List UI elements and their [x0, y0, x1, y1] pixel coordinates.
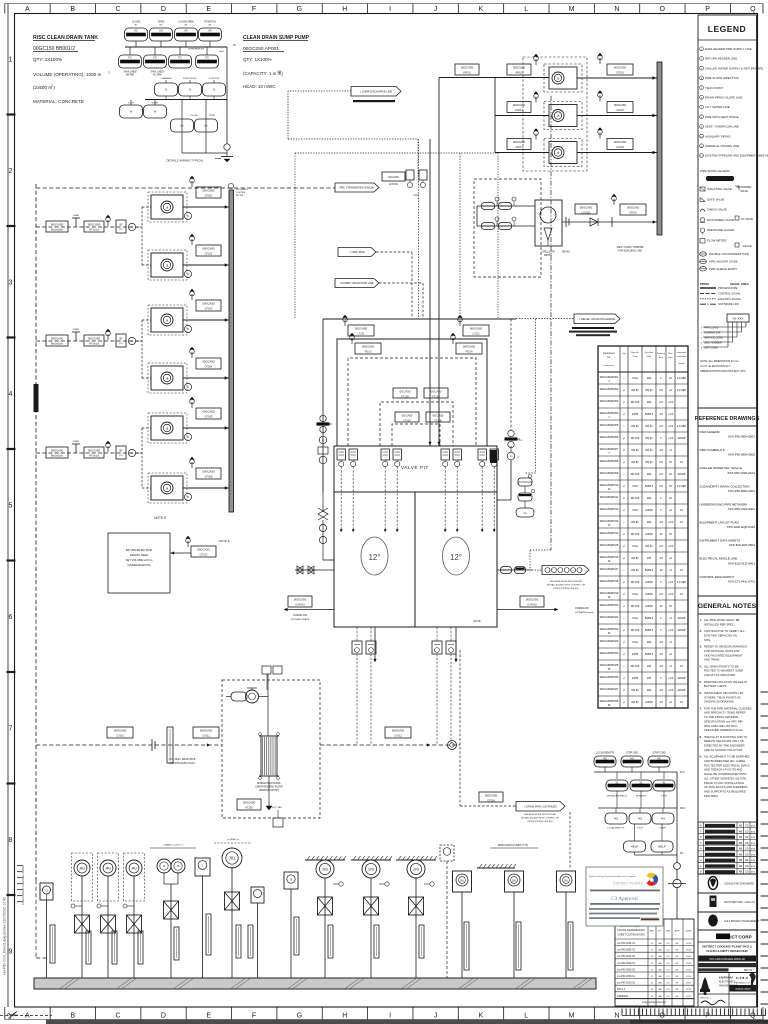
consultant logo rows [698, 874, 760, 927]
valve pit instrument pair 4 [478, 449, 499, 467]
svg-text:ALKEP: ALKEP [677, 437, 685, 440]
svg-text:XXX-PID-GEN-0001: XXX-PID-GEN-0001 [728, 435, 756, 439]
svg-text:00GCA50: 00GCA50 [202, 409, 215, 413]
logic bottom bus and riser [182, 44, 236, 162]
svg-text:FN: FN [680, 852, 683, 855]
svg-text:07/20: 07/20 [686, 983, 692, 985]
svg-text:REQUIRED: REQUIRED [236, 189, 248, 191]
svg-text:2.5: 2.5 [659, 425, 663, 428]
dosing detail dashed enclosure [222, 680, 320, 818]
svg-text:CD: CD [666, 969, 670, 971]
svg-text:BF: BF [119, 338, 123, 341]
svg-text:ISOLATING VALVE: ISOLATING VALVE [707, 187, 732, 191]
svg-text:DN 100: DN 100 [631, 629, 640, 632]
svg-text:00GCA50: 00GCA50 [88, 336, 101, 340]
right border ruler ticks [761, 692, 768, 1004]
svg-text:HS: HS [661, 817, 665, 821]
logic pill row2 [196, 55, 219, 68]
svg-text:10/4: 10/4 [647, 401, 652, 404]
riser 7 gate valve [225, 892, 240, 910]
svg-text:00GCA50AP007: 00GCA50AP007 [600, 448, 619, 451]
drain pump J6N-6 dashed pad [148, 473, 187, 503]
pump J6N-5 status circle [184, 433, 191, 440]
title block signature cell [698, 994, 757, 1007]
riser 3 standpipe [112, 931, 117, 964]
svg-text:SITE.: SITE. [704, 638, 711, 642]
legend panel frame [698, 15, 757, 1007]
tag inside box right [456, 343, 482, 354]
svg-text:P/O: P/O [119, 229, 123, 231]
svg-text:E: E [206, 1013, 211, 1020]
svg-text:12/80: 12/80 [632, 413, 639, 416]
riser 5 twin instruments [157, 859, 185, 978]
dashed links banners to AOV risers [376, 252, 423, 318]
right tank outlet valves [497, 569, 532, 571]
svg-text:AC: AC [134, 24, 137, 27]
riser 14 standpipe [516, 922, 521, 970]
svg-text:DRAIN: DRAIN [73, 440, 80, 443]
svg-text:INSTALLED AND WITH CONTROL OF: INSTALLED AND WITH CONTROL OF [521, 817, 560, 820]
svg-text:2.5: 2.5 [659, 545, 663, 548]
svg-text:ALKEP: ALKEP [677, 689, 685, 692]
svg-text:(reference): (reference) [604, 364, 615, 367]
svg-text:2.4 KEP: 2.4 KEP [677, 425, 687, 428]
svg-text:PIPE ANCHOR GUIDE: PIPE ANCHOR GUIDE [709, 259, 738, 263]
svg-text:00GCA50AP018: 00GCA50AP018 [600, 580, 619, 583]
svg-text:00GCA50AP026: 00GCA50AP026 [600, 676, 619, 679]
svg-text:xxx-PID-0003-02: xxx-PID-0003-02 [617, 982, 636, 985]
svg-text:2.5: 2.5 [659, 485, 663, 488]
svg-text:4.0: 4.0 [659, 701, 663, 704]
riser 5 standpipe [174, 927, 179, 960]
svg-text:XXX-PID-UGN-0301: XXX-PID-UGN-0301 [728, 507, 756, 511]
svg-text:CHECK VALVE: CHECK VALVE [707, 208, 727, 212]
svg-text:XXX-INS-DAT-0501: XXX-INS-DAT-0501 [729, 543, 756, 547]
flag above box left [343, 315, 348, 326]
svg-text:00GCA50AP024: 00GCA50AP024 [600, 652, 619, 655]
svg-text:CF020: CF020 [200, 553, 208, 557]
pump J6-3 symbol [552, 147, 564, 159]
svg-text:DN 50: DN 50 [631, 569, 639, 572]
svg-text:CLOSE: CLOSE [190, 115, 198, 117]
svg-text:4.0: 4.0 [659, 413, 663, 416]
turbine outlet tag [575, 204, 597, 215]
svg-text:AND TRIMS.: AND TRIMS. [704, 658, 720, 662]
svg-text:C: C [115, 6, 120, 13]
svg-text:AB: AB [739, 848, 743, 851]
pump J6N-1 tag [196, 187, 221, 198]
svg-text:00GCA50AP005: 00GCA50AP005 [600, 424, 619, 427]
svg-text:SIGNAL LINES: SIGNAL LINES [730, 282, 749, 286]
svg-text:•: • [624, 377, 625, 380]
svg-text:J: J [434, 1013, 438, 1020]
riser 4 gate valve [127, 915, 142, 933]
svg-text:07/20: 07/20 [686, 963, 692, 965]
svg-text:FOR BUILDING USE: FOR BUILDING USE [618, 250, 642, 253]
svg-text:07/20: 07/20 [686, 969, 692, 971]
svg-text:P&ID LEGEND: P&ID LEGEND [700, 430, 721, 434]
feed line tag J6-1 [455, 64, 479, 75]
pump J6N-5 flag [190, 397, 195, 408]
svg-text:+4.5: +4.5 [668, 677, 674, 680]
svg-text:M: M [569, 6, 575, 13]
svg-text:K: K [478, 6, 483, 13]
svg-text:PIPE CLASS: PIPE CLASS [704, 327, 719, 330]
cluster 2 tag A [46, 335, 68, 346]
svg-text:xxx-PID-0002-02: xxx-PID-0002-02 [617, 968, 636, 971]
svg-text:HS: HS [638, 817, 642, 821]
left overflow tag [288, 596, 312, 607]
riser 4 pump instrument [126, 860, 142, 876]
svg-text:AP1w1w: AP1w1w [89, 454, 99, 458]
logic labels row4 [128, 101, 159, 104]
svg-text:A: A [187, 385, 189, 389]
bus tick valve [152, 739, 155, 751]
svg-text:TT107: TT107 [403, 419, 411, 423]
svg-text:CLEAN & DIRTY DRAIN P&ID: CLEAN & DIRTY DRAIN P&ID [706, 949, 748, 953]
svg-text:115/60: 115/60 [645, 593, 653, 596]
pipe designation code detail [701, 314, 749, 350]
header inlet flag [612, 194, 617, 205]
mcc caption row3 [607, 827, 667, 830]
svg-text:CLOSE: CLOSE [132, 21, 141, 24]
svg-text:0GCA50: 0GCA50 [402, 413, 413, 417]
svg-text:07/20: 07/20 [686, 956, 692, 958]
svg-text:VALVE: VALVE [740, 190, 748, 193]
svg-text:00GCA50: 00GCA50 [614, 65, 627, 69]
svg-text:D: D [161, 6, 166, 13]
right stack capsule flags [525, 474, 535, 493]
bus node instrument [448, 741, 457, 750]
logic diagram wiring bus row1 [125, 41, 227, 55]
riser 10 standpipe [328, 925, 333, 958]
tag mid pair left [393, 388, 417, 399]
logic pill row2 [144, 55, 167, 68]
grating above riser 11 [351, 856, 392, 860]
svg-text:00GCA50: 00GCA50 [485, 793, 498, 797]
svg-text:WATER: WATER [126, 74, 134, 77]
svg-text:L: L [524, 1013, 528, 1020]
svg-text:CD: CD [745, 865, 749, 868]
svg-text:XXX-PID-DRN-0201: XXX-PID-DRN-0201 [728, 489, 756, 493]
bottom grid letter band [5, 1007, 763, 1020]
svg-text:DRAINS NEED: DRAINS NEED [130, 553, 148, 557]
svg-text:OPEN: OPEN [209, 115, 216, 117]
svg-text:00GCA50: 00GCA50 [88, 222, 101, 226]
valve pit dark instrument [490, 450, 497, 463]
svg-text:I: I [389, 1013, 391, 1020]
svg-text:TANK LINED: TANK LINED [150, 71, 164, 74]
svg-text:DN 80: DN 80 [631, 461, 639, 464]
bus standpipe [167, 727, 173, 763]
svg-text:00GCA50: 00GCA50 [627, 205, 640, 209]
drain pump J6N-4 box [151, 366, 183, 390]
svg-text:00GCA50AP028: 00GCA50AP028 [600, 700, 619, 703]
logic labels under row2 [123, 49, 225, 77]
svg-text:L: L [524, 6, 528, 13]
svg-text:QTY: 1X100%: QTY: 1X100% [243, 57, 272, 62]
svg-text:A: A [213, 88, 215, 92]
tank drain solid drops [374, 627, 458, 662]
below-tank instrument pair 2 [432, 641, 456, 654]
cluster 1 node circle [128, 223, 135, 230]
general notes text [700, 618, 752, 798]
svg-text:A: A [165, 88, 167, 92]
svg-text:CONSULTING ENGINEERS: CONSULTING ENGINEERS [724, 883, 755, 886]
logic bus row2-3 [161, 77, 220, 83]
AOV instrument cluster top [382, 170, 427, 197]
dosing pump connection [258, 674, 268, 736]
title block [698, 930, 757, 953]
svg-text:AB: AB [739, 865, 743, 868]
cluster 1 tag B [84, 221, 104, 232]
riser 10 drop pipe [324, 878, 326, 978]
tag mid pair right [424, 388, 448, 399]
approval stamp rules and title [590, 890, 660, 905]
svg-text:EQUIPMENT LAYOUT PLAN: EQUIPMENT LAYOUT PLAN [700, 521, 739, 525]
wiring detail side note [228, 183, 248, 197]
svg-text:REV 02: REV 02 [744, 969, 753, 972]
svg-text:00GCA50: 00GCA50 [294, 597, 307, 601]
svg-text:AP013: AP013 [515, 145, 523, 149]
svg-text:A: A [25, 6, 30, 13]
svg-text:DN 40: DN 40 [645, 389, 653, 392]
svg-text:PER SPEC.: PER SPEC. [704, 794, 719, 798]
pump discharge header bar (left) [229, 190, 234, 512]
svg-text:START: START [152, 101, 160, 104]
mini hydro turbine unit [535, 200, 562, 246]
svg-text:AB: AB [739, 859, 743, 862]
left stack actuated valve [317, 415, 333, 432]
svg-text:FC: FC [178, 56, 182, 60]
riser 3 pump instrument [100, 860, 116, 876]
svg-text:XXX-ELE-SLD-0601: XXX-ELE-SLD-0601 [728, 561, 756, 565]
svg-text:BATTERY LIMITS.: BATTERY LIMITS. [704, 684, 727, 688]
svg-text:2.5: 2.5 [659, 593, 663, 596]
svg-text:CLEAN DRAIN CHANNEL INVERT: CLEAN DRAIN CHANNEL INVERT [21, 864, 25, 905]
svg-text:UNDERGROUND PIPE NETWORK: UNDERGROUND PIPE NETWORK [700, 502, 748, 506]
filter caption [255, 782, 283, 792]
riser 13 standpipe [464, 922, 469, 970]
pump J6N-4 tag [196, 358, 221, 369]
svg-text:AC: AC [208, 29, 212, 33]
valve pit instrument pair 1 [337, 449, 358, 467]
svg-text:x TANK PIPE: x TANK PIPE [349, 250, 365, 254]
svg-text:OVERFLOW: OVERFLOW [575, 607, 589, 610]
svg-text:✶-✶✷-✶: ✶-✶✷-✶ [736, 976, 749, 980]
svg-text:K: K [478, 1013, 483, 1020]
main process risers (double vertical) [429, 78, 441, 447]
svg-text:Q: Q [750, 6, 756, 13]
svg-text:APP: APP [675, 930, 680, 933]
svg-text:XXX-GAD-EQP-0110: XXX-GAD-EQP-0110 [727, 525, 756, 529]
riser 11 drop pipe [370, 878, 372, 978]
svg-text:FT106: FT106 [432, 395, 440, 399]
svg-text:•: • [624, 617, 625, 620]
svg-text:FOR PROCESS FLUID: FOR PROCESS FLUID [170, 762, 195, 765]
svg-text:OVF001: OVF001 [295, 603, 305, 607]
filter tag [237, 799, 261, 810]
riser 4 drop pipe [133, 876, 135, 978]
svg-text:DN 100: DN 100 [631, 497, 640, 500]
svg-text:2.4 KEP: 2.4 KEP [677, 581, 687, 584]
svg-text:00GCA50: 00GCA50 [243, 800, 256, 804]
legend misc bottom notes [700, 359, 746, 373]
tank transfer note box [108, 533, 170, 593]
svg-text:4.0: 4.0 [659, 449, 663, 452]
svg-text:AND AS SHOWN ON LAYOUT.: AND AS SHOWN ON LAYOUT. [704, 748, 743, 752]
left trunk elbow to channel [35, 780, 37, 880]
svg-text:9.: 9. [700, 755, 703, 759]
svg-text:A: A [131, 451, 133, 455]
cluster 2 tee tick [72, 328, 80, 341]
right stack instruments [497, 440, 522, 500]
dashed riser right of detail [460, 650, 516, 806]
dashed crossover marker on left trunk [34, 384, 39, 412]
riser 4 dashed enclosure [124, 853, 145, 901]
svg-text:ELECTRODE: ELECTRODE [183, 78, 197, 80]
svg-text:AUXILIARY PIPING: AUXILIARY PIPING [705, 134, 731, 138]
logic pill row2 [169, 55, 192, 68]
svg-text:INSTALLED PER SPEC.: INSTALLED PER SPEC. [704, 622, 735, 626]
tag inner pair right [426, 412, 450, 423]
svg-text:G: G [297, 1013, 302, 1020]
svg-text:LT102: LT102 [472, 332, 480, 336]
svg-text:00GCA50: 00GCA50 [355, 326, 368, 330]
svg-text:CD: CD [666, 989, 670, 991]
cluster 3 tag A [46, 447, 68, 458]
svg-text:50/80.5: 50/80.5 [645, 617, 654, 620]
svg-text:CD: CD [745, 836, 749, 839]
svg-text:PIPE SIZING LEGEND: PIPE SIZING LEGEND [700, 169, 730, 173]
svg-text:2.5: 2.5 [659, 389, 663, 392]
discharge flag J6-1 [598, 53, 603, 64]
svg-text:00GCA50: 00GCA50 [114, 728, 127, 732]
valve pit instrument pair 3 [441, 449, 462, 467]
general notes section [698, 596, 757, 614]
svg-text:DISTRICT PLANTS: DISTRICT PLANTS [613, 882, 643, 886]
svg-text:AC: AC [134, 29, 138, 33]
svg-text:CHEMICAL DOSING LINE: CHEMICAL DOSING LINE [705, 144, 739, 148]
svg-text:PI103: PI103 [365, 350, 372, 354]
riser 12 side flag [424, 882, 434, 886]
svg-text:xxx-PID-0001_Rev02.dwg plotte: xxx-PID-0001_Rev02.dwg plotted 12/07/202… [3, 897, 7, 975]
pump J6N-6 status circle [184, 493, 191, 500]
cluster 1 flag [106, 215, 111, 226]
svg-text:+4.5: +4.5 [668, 413, 674, 416]
svg-text:XX-XXX: XX-XXX [732, 317, 743, 321]
svg-text:AND PIT AS INDICATED.: AND PIT AS INDICATED. [704, 673, 736, 677]
svg-text:NOMINAL DIA.: NOMINAL DIA. [704, 332, 721, 335]
transfer pump J6-1 dashed enclosure [544, 64, 582, 92]
svg-text:CHK: CHK [666, 931, 671, 933]
svg-text:CD: CD [745, 830, 749, 833]
svg-text:x DRAIN PIPE CONTINUES: x DRAIN PIPE CONTINUES [524, 804, 557, 808]
svg-text:ELECTRIC SIGNAL: ELECTRIC SIGNAL [718, 297, 742, 301]
left stack connection [322, 409, 324, 492]
dotted drop to capsule stack [525, 319, 536, 473]
mcc pill row3-3 [652, 813, 674, 824]
svg-text:VALVE PIT: VALVE PIT [401, 465, 429, 470]
svg-text:DETAIL: DETAIL [562, 251, 571, 254]
svg-text:00GCA50: 00GCA50 [513, 103, 526, 107]
svg-text:50/80.5: 50/80.5 [645, 653, 654, 656]
svg-text:00GCA50: 00GCA50 [88, 448, 101, 452]
main dashed signal trunk (left vertical) [35, 184, 37, 880]
sequence banner [542, 566, 589, 575]
riser 12 standpipe [419, 925, 424, 958]
svg-text:CF010: CF010 [629, 211, 637, 215]
svg-text:2: 2 [9, 168, 13, 175]
pump J6N-4 discharge to header [183, 377, 229, 380]
svg-text:SOFTWARE LINK: SOFTWARE LINK [718, 302, 739, 306]
off-page flag [574, 314, 620, 324]
left row numbers [7, 56, 16, 955]
svg-text:LEGEND: LEGEND [708, 24, 746, 34]
svg-text:DN 100: DN 100 [631, 401, 640, 404]
svg-text:PRESSURE GAUGE: PRESSURE GAUGE [707, 228, 734, 232]
svg-text:CLOSE/OPEN: CLOSE/OPEN [178, 21, 194, 24]
svg-text:2.5: 2.5 [659, 461, 663, 464]
legend symbol list [700, 187, 734, 243]
svg-text:NOTE 5: NOTE 5 [154, 516, 166, 520]
right stack valve capsule 2 [518, 493, 532, 501]
cluster 3 flag [106, 441, 111, 452]
pump J6N-1 discharge to header [183, 206, 229, 209]
svg-text:10/4: 10/4 [647, 473, 652, 476]
svg-text:PIPE SLEEVE ENTRY: PIPE SLEEVE ENTRY [709, 267, 737, 271]
approval stamp box [586, 867, 663, 926]
svg-text:No.: No. [607, 356, 611, 359]
pump J6N-2 discharge to header [183, 264, 229, 267]
bus caption under detail [169, 758, 196, 765]
grating right 1 [477, 864, 516, 868]
feed flag J6-3 [534, 129, 539, 140]
svg-text:8.: 8. [700, 735, 703, 739]
svg-text:00GCA50AP020: 00GCA50AP020 [600, 604, 619, 607]
svg-text:xxx-PID-0001-02: xxx-PID-0001-02 [617, 949, 636, 952]
logic pill row1 POSITION [199, 28, 222, 41]
svg-text:4: 4 [9, 391, 13, 398]
svg-text:HEAD: 10 mWC: HEAD: 10 mWC [243, 84, 276, 89]
svg-text:00GCA50AP002: 00GCA50AP002 [600, 388, 619, 391]
logic bus line 2 [131, 96, 227, 105]
feed flag J6-1 [534, 54, 539, 65]
inlet valve 2b [499, 223, 512, 230]
svg-text:G: G [297, 6, 302, 13]
svg-text:CF006: CF006 [205, 475, 213, 479]
svg-text:2x: 2x [180, 124, 184, 128]
tag above box right [463, 325, 489, 336]
svg-text:07/20: 07/20 [686, 996, 692, 998]
sump channel gray bar [34, 978, 596, 989]
svg-text:00GCA50: 00GCA50 [580, 205, 593, 209]
svg-text:CHAMBER: CHAMBER [161, 77, 172, 80]
svg-text:DN 50: DN 50 [631, 701, 639, 704]
svg-text:CF001: CF001 [205, 194, 213, 198]
svg-text:F: F [252, 1013, 256, 1020]
pump J6N-2 tag [196, 245, 221, 256]
legend title [698, 24, 757, 40]
transfer note flag [186, 536, 191, 547]
svg-text:•: • [624, 473, 625, 476]
svg-text:SYSTEM: SYSTEM [236, 192, 245, 194]
svg-text:DETAIL2 WIRING TYPICAL: DETAIL2 WIRING TYPICAL [166, 159, 204, 163]
svg-text:00GCA50AP001: 00GCA50AP001 [600, 376, 619, 379]
svg-text:J6U: J6U [564, 879, 569, 882]
svg-text:J2U: J2U [322, 867, 329, 871]
cluster 2 flag [106, 329, 111, 340]
